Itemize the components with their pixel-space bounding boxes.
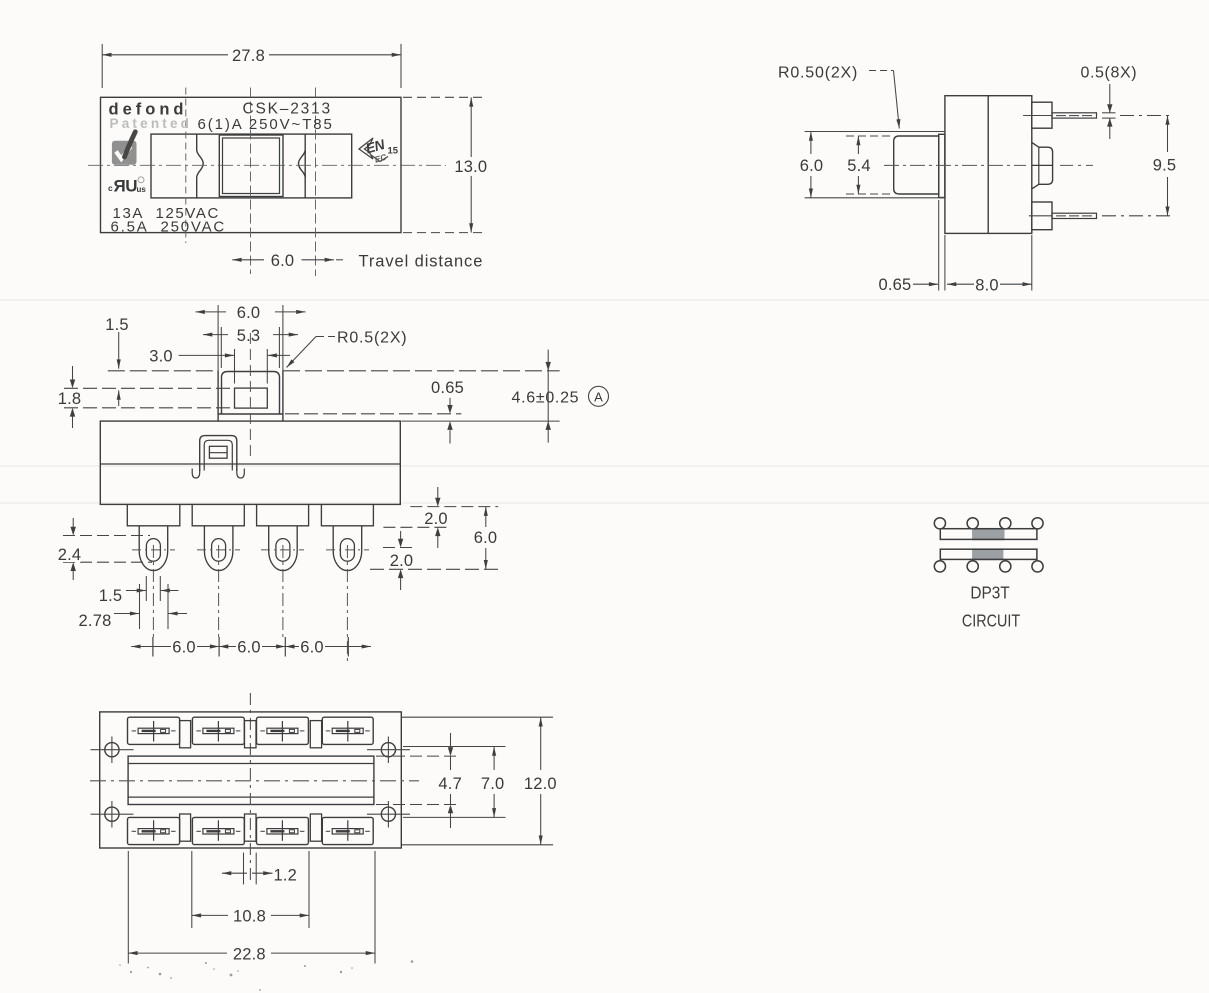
svg-text:ЯU: ЯU: [114, 177, 138, 196]
dim R0.5(2X) front leader: [316, 336, 335, 338]
bottom view: hole crosses: [91, 749, 134, 751]
side view: knob: [894, 136, 939, 194]
bottom view: band inner line top: [128, 763, 374, 765]
svg-text:2.0: 2.0: [424, 510, 448, 528]
svg-text:7.0: 7.0: [481, 775, 505, 793]
dim 13.0 extension dashes: [403, 96, 484, 98]
top view: switch body outline: [101, 97, 402, 232]
top view: slider knob outer: [219, 135, 283, 197]
bottom view: mounting hole bottom-left: [105, 807, 119, 821]
bottom view: top terminal tab 4: [322, 717, 373, 744]
dim 6.0 right line: [485, 507, 487, 527]
dim 10.8 ext lines: [191, 851, 193, 928]
top view: position centerline left (dashed): [185, 88, 187, 244]
svg-text:2.4: 2.4: [58, 546, 82, 564]
svg-text:1.8: 1.8: [58, 390, 82, 408]
front view: terminal stub 3: [257, 504, 309, 525]
svg-text:2.78: 2.78: [79, 612, 112, 630]
dim 1.8 ext bottom dash: [64, 407, 234, 409]
dim 6.0 side line: [810, 132, 812, 155]
top view: left detent contour: [197, 134, 204, 198]
side view: bottom pin seam dashes: [1056, 215, 1092, 217]
dim 5.3 knob arrows: [203, 334, 228, 336]
front view: latch clip left hook: [192, 469, 200, 479]
dim 2.0 second line: [400, 531, 402, 546]
bottom view: vertical centerline: [249, 693, 251, 884]
svg-text:0.5(8X): 0.5(8X): [1081, 65, 1138, 82]
dim 5.4 side line: [857, 136, 859, 154]
front view: latch clip right hook: [237, 469, 245, 479]
dim 12.0 line: [540, 717, 542, 770]
dim 0.65 leader: [913, 283, 938, 285]
front view: latch clip inner: [204, 440, 232, 470]
svg-text:R0.5(2X): R0.5(2X): [337, 330, 407, 347]
svg-text:0.65: 0.65: [431, 379, 464, 397]
dim text 2.0 first: [420, 510, 451, 526]
scan band 3: [0, 502, 1209, 504]
circuit: bottom bar wiper (gray): [972, 549, 1003, 559]
front view: pin 3 centerline: [282, 545, 284, 638]
dim 12.0 ext top: [402, 716, 553, 718]
dim text 9.5: [1152, 155, 1177, 172]
front view: knob window: [235, 388, 268, 408]
dim 1.5 knob line: [118, 332, 120, 369]
svg-text:9.5: 9.5: [1153, 157, 1177, 175]
dim 27.8 extension line right: [400, 44, 402, 88]
dim 13.0 line: [470, 97, 472, 157]
dim chain arrow pairs: [210, 644, 219, 648]
svg-text:2.0: 2.0: [390, 552, 414, 570]
dim 2.78 arrows: [114, 613, 139, 615]
top view: ENEC mark: [359, 136, 399, 165]
svg-text:4.7: 4.7: [438, 775, 462, 793]
dim 1.5 pin ticks: [145, 576, 147, 601]
svg-text:6.0: 6.0: [172, 639, 196, 657]
bottom view: bottom terminal tab 3: [257, 817, 309, 844]
dim 12.0 ext bottom: [402, 844, 553, 846]
dim right ext 2.0 top dash: [410, 506, 498, 508]
dim 4.7 ext dashes: [376, 755, 458, 757]
side view: channel upper line: [805, 131, 945, 133]
front view: terminal stub 2: [192, 504, 244, 525]
svg-text:DP3T: DP3T: [970, 584, 1009, 603]
dim 2.4 line: [72, 518, 74, 534]
circuit: terminal circles bottom row: [934, 561, 945, 572]
dim 0.65 front line: [449, 398, 451, 412]
svg-text:c: c: [108, 183, 113, 193]
svg-text:27.8: 27.8: [232, 47, 265, 65]
front view: latch window box: [209, 446, 227, 458]
svg-text:22.8: 22.8: [233, 946, 266, 964]
svg-text:6.0: 6.0: [271, 252, 295, 270]
front view: pin 4 hole cross dash: [326, 549, 369, 551]
svg-text:12.0: 12.0: [524, 775, 557, 793]
bottom view: top terminal tab 2: [192, 717, 244, 744]
front view: pin 2: [204, 526, 233, 571]
dim 0.5(8X) leader lines: [1109, 84, 1111, 113]
svg-text:6.5A 250VAC: 6.5A 250VAC: [111, 218, 227, 235]
front view: pin 3 hole: [276, 539, 290, 562]
dim 1.8 ext top dash: [64, 387, 234, 389]
circuit: top bar wiper (gray): [972, 529, 1004, 540]
top view: right detent contour: [299, 150, 306, 178]
bottom view: top housing post 3: [310, 721, 321, 748]
bottom view: band inner line bottom: [128, 796, 374, 798]
dim text 4.7: [436, 772, 465, 790]
svg-text:6.0: 6.0: [300, 639, 324, 657]
dim 22.8 ext lines: [127, 851, 129, 964]
bottom view: bottom housing post 1: [180, 814, 191, 841]
top view: slider channel: [151, 134, 352, 198]
dim 2.0 first line: [437, 487, 439, 505]
svg-text:13.0: 13.0: [454, 158, 487, 176]
bottom view: bottom terminal tab 2: [192, 817, 244, 844]
dim 2.78 ticks: [139, 584, 141, 629]
bottom view: top terminal tab 3: [257, 717, 309, 744]
svg-text:1.5: 1.5: [99, 587, 123, 605]
dim 5.3 knob ext: [220, 327, 222, 368]
dim right ext stub bottom dash: [383, 526, 449, 528]
dim 6.0 knob arrows: [196, 311, 227, 313]
side view: bottom terminal block: [1032, 202, 1052, 230]
top view: right divider line: [304, 134, 306, 198]
svg-text:4.6±0.25: 4.6±0.25: [512, 390, 580, 407]
top view: slider knob inner: [223, 138, 280, 194]
dim right ext pin bottom dash: [370, 568, 498, 570]
side view: top terminal block: [1032, 102, 1052, 128]
svg-text:Travel distance: Travel distance: [359, 253, 484, 271]
front view: pin 2 hole: [212, 539, 226, 562]
side view: base plate 0.65: [939, 134, 945, 197]
svg-text:Patented: Patented: [110, 116, 193, 131]
svg-text:10.8: 10.8: [233, 908, 266, 926]
dim 4.7 line: [450, 733, 452, 754]
dim 6.0 knob ext left: [217, 305, 219, 371]
bottom view: mounting hole top-right: [381, 743, 395, 757]
dim 0.65 front ext dash: [285, 413, 461, 415]
front view: pin 3 hole cross dash: [261, 549, 304, 551]
circuit label DP3T: [970, 584, 1009, 603]
front view: pin 3: [269, 526, 298, 571]
dim 8.0 line: [947, 283, 974, 285]
top view: position centerline right (dashed): [315, 88, 317, 277]
svg-text:3.0: 3.0: [149, 348, 173, 366]
side view: body divider line: [987, 96, 989, 234]
side view: bottom pin: [1052, 213, 1097, 218]
svg-text:8.0: 8.0: [975, 277, 999, 295]
dim 7.0 line: [493, 747, 495, 771]
scan noise specks: [119, 960, 413, 991]
svg-text:6.0: 6.0: [237, 639, 261, 657]
front view: knob base plate line: [218, 413, 283, 415]
circuit label CIRCUIT: [962, 612, 1020, 631]
svg-text:5.3: 5.3: [237, 327, 261, 345]
dim 7.0 ext bottom: [403, 816, 506, 818]
dim 27.8 line: [102, 54, 228, 56]
side view: bottom pin cross line: [1029, 215, 1052, 217]
svg-text:A: A: [594, 389, 603, 404]
dim 2.4 ext dashes: [63, 535, 150, 537]
dim knob-top extension dash left: [108, 370, 218, 372]
front view: collar right wall: [282, 371, 284, 421]
side view: top pin cross line: [1023, 115, 1052, 117]
dim 27.8 extension line left: [101, 44, 103, 88]
side view: channel lower line: [805, 197, 945, 199]
front view: pin 1 centerline: [152, 545, 154, 638]
circuit: terminal circles top row: [934, 518, 945, 529]
side view: body outline: [945, 96, 1032, 234]
top view: UL recognized mark: [108, 177, 146, 196]
front view: pin 2 centerline: [218, 545, 220, 638]
dim 4.6 line: [547, 350, 549, 443]
svg-text:6.0: 6.0: [800, 157, 824, 175]
dim text 2.4: [58, 545, 81, 562]
dim 22.8 line: [128, 952, 227, 954]
svg-text:R0.50(2X): R0.50(2X): [778, 65, 858, 82]
front view: pin 2 hole cross dash: [197, 549, 240, 551]
dim 6.0 travel line right: [302, 259, 334, 261]
side view: top pin: [1052, 113, 1097, 118]
scan band 2: [0, 465, 1209, 467]
front view: terminal stub 4: [321, 504, 373, 525]
svg-text:us: us: [137, 185, 147, 194]
svg-text:6.0: 6.0: [237, 304, 261, 322]
bottom view: bottom terminal tab 1: [128, 817, 180, 844]
dim 3.0 ticks: [234, 349, 236, 384]
dim chain ticks: [152, 637, 154, 657]
datum circle A: [589, 386, 609, 406]
dim 1.5 pin arrows: [126, 590, 146, 592]
svg-text:1.5: 1.5: [105, 316, 129, 334]
bottom view: mounting hole top-left: [105, 743, 119, 757]
dim 7.0 ext top: [403, 746, 506, 748]
dim 9.5 connector dashes: [1120, 115, 1174, 117]
front view: pin 1 hole: [146, 539, 160, 562]
dim 6.0 knob ext right: [282, 305, 284, 371]
side view: horizontal centerline: [884, 164, 1026, 166]
bottom view: bottom terminal tab 4: [322, 817, 373, 844]
dim 1.8 line: [72, 366, 74, 386]
dim text 6.0 right: [471, 529, 501, 545]
front view: latch clip outer: [200, 436, 237, 471]
bottom view: top housing post 1: [180, 721, 191, 748]
bottom view: top terminal tab 1: [128, 717, 180, 744]
front view: body mid line: [100, 463, 400, 465]
bottom view: horizontal centerline: [90, 780, 419, 782]
bottom view: slider channel band: [128, 756, 374, 804]
front view: terminal stub 1: [127, 504, 180, 525]
front view: pin 4 hole: [340, 539, 354, 562]
bottom view: top housing post 2: [245, 721, 257, 748]
svg-text:5.4: 5.4: [847, 157, 871, 175]
svg-text:0.65: 0.65: [879, 276, 912, 294]
dim 3.0 leader: [179, 354, 235, 356]
dim 10.8 line: [192, 914, 228, 916]
dim text 12.0: [524, 772, 558, 790]
dim 9.5 line: [1167, 116, 1169, 153]
side view: middle terminal inner line: [1038, 147, 1040, 184]
bottom view: outer outline: [100, 712, 402, 848]
front view: collar left wall: [217, 371, 219, 421]
front view: knob centerline dashed: [249, 333, 251, 457]
front view: latch window mid line: [209, 452, 227, 454]
top view: check logo gray box: [112, 132, 137, 165]
front view: pin 1 hole cross dash: [132, 549, 175, 551]
dim text 2.0 second: [386, 552, 417, 568]
svg-text:CIRCUIT: CIRCUIT: [962, 612, 1020, 631]
side view: knob top extension dash: [846, 135, 894, 137]
dim 6.0 travel line left: [232, 259, 264, 261]
dim knob-top extension dash right: [283, 370, 560, 372]
dim 1.2 ticks: [243, 853, 245, 885]
front view: pin 1: [139, 526, 168, 571]
svg-text:1.2: 1.2: [274, 867, 298, 885]
svg-text:15: 15: [388, 146, 399, 157]
side view: middle terminal: [1031, 142, 1052, 189]
circuit: bottom bar: [940, 549, 1037, 559]
dim 0.65/8.0 extension lines: [938, 200, 940, 291]
top view: position centerline middle (dashed): [250, 88, 252, 275]
front view: pin 4 centerline: [346, 545, 348, 662]
circuit: top bar: [940, 529, 1037, 540]
side view: top pin seam dashes: [1056, 115, 1092, 117]
side view: knob bottom extension dash: [846, 193, 894, 195]
dim right ext arc-start tick: [383, 547, 412, 549]
front view: pin 4: [333, 526, 362, 571]
dim chain 6.0 line segments: [131, 646, 171, 648]
bottom view: mounting hole bottom-right: [381, 807, 395, 821]
scan band 1: [0, 299, 1209, 301]
bottom view: bottom housing post 3: [310, 814, 321, 841]
bottom view: bottom housing post 2: [245, 814, 257, 841]
svg-text:6(1)A 250V~T85: 6(1)A 250V~T85: [198, 116, 334, 133]
dim text 7.0: [478, 772, 509, 790]
top view: horizontal centerline (dash-dot): [88, 164, 446, 166]
front view: knob: [222, 372, 280, 415]
dim 1.2 line: [222, 872, 247, 874]
svg-text:6.0: 6.0: [474, 529, 498, 547]
dim body-top ext line: [401, 420, 559, 422]
front view: body outline: [100, 421, 400, 504]
dim R0.50(2X) leader: [869, 70, 894, 72]
dim text 1.8: [59, 390, 81, 406]
